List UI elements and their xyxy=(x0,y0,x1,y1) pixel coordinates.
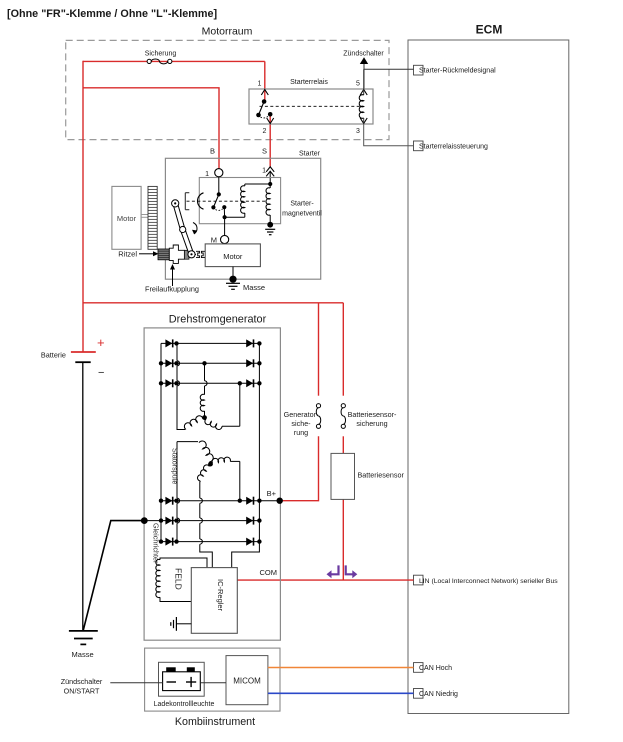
svg-text:Ritzel: Ritzel xyxy=(118,250,137,259)
svg-text:M: M xyxy=(211,236,217,245)
regulator ground xyxy=(171,617,192,631)
svg-text:Zündschalter: Zündschalter xyxy=(343,51,384,58)
svg-text:Batterie: Batterie xyxy=(41,351,66,360)
stator winding bottom wye xyxy=(177,441,240,501)
generator housing ground node xyxy=(141,517,148,524)
Zuendschalter ignition-switch arrow xyxy=(343,51,384,90)
ECM pin CAN Hoch xyxy=(414,663,453,673)
wire relay pin2 to starter S terminal (red) xyxy=(269,114,271,166)
regulator IC-Regler box xyxy=(191,568,237,634)
wire battery+ to fuse (red) xyxy=(83,60,265,62)
stator phase wire lower-left xyxy=(177,442,180,542)
pinion Ritzel xyxy=(118,249,169,260)
svg-text:Motorraum: Motorraum xyxy=(202,26,253,38)
starter motor box xyxy=(205,244,260,267)
wire relay pin3 to ECM Starterrelaissteuerung xyxy=(364,124,414,146)
ECM pin Starter-Rueckmeldesignal xyxy=(414,65,497,75)
field winding FELD xyxy=(156,558,207,602)
starter motor ground wire xyxy=(232,267,234,280)
svg-text:siche-: siche- xyxy=(291,419,311,428)
stator winding feed to regulator xyxy=(200,498,213,567)
Zuendschalter ON/START feed xyxy=(61,677,163,696)
relay coil xyxy=(359,69,363,124)
wire fuse to relay pin1 (red) xyxy=(264,61,266,101)
svg-text:Starterrelaissteuerung: Starterrelaissteuerung xyxy=(419,144,488,151)
svg-text:5: 5 xyxy=(356,81,360,88)
starter motor shaft xyxy=(141,215,148,218)
generator Drehstromgenerator box xyxy=(144,314,280,641)
wire to starter B terminal (red) xyxy=(83,88,219,170)
starter solenoid dashed actuation line xyxy=(187,200,267,202)
relay switch contact xyxy=(256,99,272,118)
rectifier output to regulator xyxy=(232,542,260,568)
svg-text:Kombiinstrument: Kombiinstrument xyxy=(175,716,255,728)
svg-text:1: 1 xyxy=(258,81,262,88)
rectifier bottom row 3 xyxy=(159,538,262,546)
ECM pin LIN serieller Bus xyxy=(414,575,559,585)
generator B+ node xyxy=(267,489,283,504)
svg-text:1: 1 xyxy=(205,171,209,178)
svg-text:Batteriesensor: Batteriesensor xyxy=(358,471,405,480)
svg-text:CAN Niedrig: CAN Niedrig xyxy=(419,691,458,698)
wire battery-sensor fuse lower to sensor (red) xyxy=(342,436,344,453)
wire Starter-Rueckmeldesignal to ECM xyxy=(364,68,414,70)
battery sensor Batteriesensor box xyxy=(331,453,404,499)
rectifier top row 1 xyxy=(161,339,262,347)
relay pin 2 xyxy=(263,118,274,135)
wire generator fuse upper (red) xyxy=(318,303,320,396)
svg-text:Masse: Masse xyxy=(72,650,94,659)
svg-text:Drehstromgenerator: Drehstromgenerator xyxy=(169,314,267,326)
relay pin 3 xyxy=(356,118,367,135)
svg-text:Starter-: Starter- xyxy=(290,201,314,208)
starter drive motor box (left) xyxy=(112,186,141,249)
svg-text:IC-Regler: IC-Regler xyxy=(216,579,225,612)
svg-text:Starter-Rückmeldesignal: Starter-Rückmeldesignal xyxy=(419,67,496,74)
rectifier bottom row 1 (B+) xyxy=(159,497,280,505)
svg-text:Ladekontrollleuchte: Ladekontrollleuchte xyxy=(154,701,215,708)
starter Starter box xyxy=(165,151,320,280)
stator phase wire upper-left xyxy=(177,343,185,429)
battery Batterie xyxy=(41,335,105,379)
rectifier right bus xyxy=(258,343,260,541)
wire generator fuse lower to B+ (red) xyxy=(280,436,319,500)
svg-text:Motor: Motor xyxy=(223,252,243,261)
freewheel clutch Freilaufkupplung xyxy=(145,245,205,294)
charge warning light Ladekontrollleuchte xyxy=(154,662,215,708)
starter engagement lever xyxy=(172,200,197,258)
svg-text:Motor: Motor xyxy=(117,214,137,223)
fuse Generator-sicherung xyxy=(284,404,321,437)
svg-text:+: + xyxy=(97,335,105,350)
wire battery+ to generator/battery-sensor fuses (red) xyxy=(83,302,343,304)
svg-text:Zündschalter: Zündschalter xyxy=(61,677,103,686)
wire battery+ vertical (red) xyxy=(82,61,84,352)
rectifier top row 3 xyxy=(159,379,262,387)
svg-text:Starterrelais: Starterrelais xyxy=(290,79,328,86)
svg-text:Starter: Starter xyxy=(299,151,321,158)
starter terminal S xyxy=(262,147,274,185)
stator winding top wye xyxy=(184,361,239,429)
starter solenoid ground xyxy=(265,222,275,235)
starter solenoid plunger fork xyxy=(185,193,203,210)
svg-text:Sicherung: Sicherung xyxy=(145,50,177,57)
starter terminal B xyxy=(205,147,223,179)
wire battery sensor to LIN bus (red) xyxy=(342,499,344,580)
svg-text:MICOM: MICOM xyxy=(233,677,261,686)
LIN bus direction arrows xyxy=(327,565,358,578)
wire CAN Niedrig (blue) xyxy=(268,692,414,694)
svg-text:CAN Hoch: CAN Hoch xyxy=(419,665,452,672)
rectifier left bus xyxy=(160,343,162,541)
rectifier bottom row 2 xyxy=(144,517,261,525)
Motorraum engine-compartment dashed boundary xyxy=(66,26,389,140)
starter solenoid pull-in coil xyxy=(225,182,273,217)
svg-text:2: 2 xyxy=(263,128,267,135)
svg-text:sicherung: sicherung xyxy=(356,419,387,428)
fuse Batteriesensor-sicherung xyxy=(341,404,397,429)
starter solenoid box Starter-magnetventil xyxy=(199,178,322,224)
starter solenoid hold-in coil xyxy=(266,184,270,225)
svg-text:B+: B+ xyxy=(267,489,277,498)
starter solenoid contacts xyxy=(211,177,226,236)
svg-text:LIN (Local Interconnect Networ: LIN (Local Interconnect Network) seriell… xyxy=(419,578,558,585)
svg-text:Statorspule: Statorspule xyxy=(170,448,179,484)
svg-text:3: 3 xyxy=(356,128,360,135)
relay pin 5 xyxy=(356,81,367,96)
svg-text:Generator-: Generator- xyxy=(284,410,319,419)
relay internal dashed link xyxy=(260,105,361,107)
ECM pin Starterrelaissteuerung xyxy=(414,141,488,151)
relay pin 1 xyxy=(258,81,269,96)
starter gear rack xyxy=(148,186,157,249)
relay Starterrelais box xyxy=(249,79,373,124)
svg-text:rung: rung xyxy=(294,428,308,437)
wire battery-sensor fuse upper (red) xyxy=(342,303,344,396)
svg-text:Batteriesensor-: Batteriesensor- xyxy=(348,410,397,419)
wire CAN Hoch (orange) xyxy=(268,667,414,669)
MICOM box xyxy=(226,656,268,705)
ECM pin CAN Niedrig xyxy=(414,689,459,699)
svg-text:Gleichrichter: Gleichrichter xyxy=(151,523,160,564)
instrument cluster Kombiinstrument box xyxy=(145,648,280,728)
svg-text:COM: COM xyxy=(260,568,278,577)
wire COM / LIN bus to ECM (red) xyxy=(237,579,413,581)
wire battery- to ground xyxy=(82,362,84,631)
svg-text:ECM: ECM xyxy=(476,23,503,37)
svg-text:FELD: FELD xyxy=(174,568,184,590)
wire generator housing to ground xyxy=(83,521,144,631)
fuse Sicherung xyxy=(145,50,177,64)
svg-text:ON/START: ON/START xyxy=(64,687,100,696)
svg-text:B: B xyxy=(210,147,215,156)
wire warning light to MICOM xyxy=(200,682,226,684)
svg-text:Masse: Masse xyxy=(243,283,265,292)
svg-text:S: S xyxy=(262,147,267,156)
svg-text:1: 1 xyxy=(262,168,266,175)
starter ground Masse xyxy=(226,276,265,292)
rectifier top row 2 xyxy=(159,359,262,367)
ground Masse (battery) xyxy=(69,631,98,659)
ECM module box xyxy=(408,23,569,714)
svg-text:magnetventil: magnetventil xyxy=(282,211,322,218)
svg-text:−: − xyxy=(98,367,104,379)
svg-text:[Ohne "FR"-Klemme / Ohne "L"-K: [Ohne "FR"-Klemme / Ohne "L"-Klemme] xyxy=(7,8,217,20)
starter terminal M xyxy=(211,235,229,244)
